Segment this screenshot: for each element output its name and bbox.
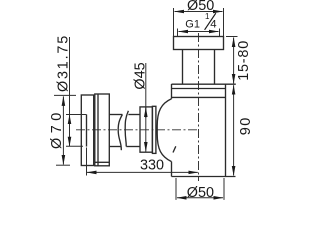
dimension Ø70: bottom extension line	[56, 164, 70, 166]
dimension 330: left extension line at wall plane	[86, 148, 88, 176]
pipe break squiggle right curve	[125, 111, 128, 147]
dimension G1 1/4: extension line left	[177, 29, 179, 37]
dimension Ø31.75: top extension line	[66, 114, 87, 116]
intersection curve at bottom of neck bell	[173, 146, 176, 152]
body neck bell curve (waist of bottle at inlet)	[157, 99, 171, 162]
dimension 15-80: top extension line at flange top	[226, 36, 238, 38]
svg-text:4: 4	[210, 18, 216, 30]
pipe break squiggle left curve	[118, 115, 122, 151]
washer between nut and body neck	[152, 106, 156, 153]
dimension 15-80: vertical dimension line with arrows	[233, 38, 235, 84]
compression nut at body inlet	[140, 107, 152, 152]
svg-text:G1: G1	[185, 18, 200, 30]
dimension Ø31.75: bottom extension line	[66, 145, 83, 147]
riser pipe wall right	[214, 50, 216, 85]
body top edge (extended right as shared extension line for 15-80 and 90 dims)	[172, 83, 236, 85]
svg-text:Ø70: Ø70	[49, 108, 65, 149]
wall flange plate (Ø70)	[81, 95, 93, 166]
dimension 90: vertical dimension line with arrows	[233, 85, 235, 175]
svg-text:15-80: 15-80	[236, 40, 252, 81]
dimension Ø31.75: dimension line from label	[69, 37, 71, 146]
vertical centerline of riser and body	[198, 33, 200, 181]
wall flange collar inner vertical edge	[97, 94, 99, 166]
svg-text:90: 90	[238, 116, 254, 135]
top flange (G1 1/4 nut)	[174, 37, 224, 50]
wall flange collar	[95, 94, 110, 166]
svg-text:Ø50: Ø50	[187, 0, 214, 14]
dimension Ø50 top: dimension line with arrows	[175, 11, 223, 13]
riser pipe wall left	[182, 50, 184, 85]
svg-text:Ø50: Ø50	[187, 185, 214, 200]
wall flange collar inner bottom edge	[95, 161, 110, 163]
dimension Ø45: top arrow	[145, 108, 147, 119]
body right wall	[225, 84, 227, 177]
dimension Ø70: dimension line with arrows	[62, 96, 64, 164]
body bottom edge (extended right as extension line for 90 dim)	[172, 176, 236, 178]
body top band line	[172, 88, 226, 90]
body interior seam line below top collar	[172, 96, 226, 98]
dimension G1 1/4: dimension line with arrows	[179, 31, 219, 33]
outlet pipe bottom edge right of break	[126, 146, 140, 148]
dimension Ø70: top extension line	[54, 94, 76, 96]
body left wall upper segment	[171, 84, 173, 99]
dimension Ø50 top: extension line left	[173, 8, 175, 36]
outlet pipe bottom edge left of break	[109, 146, 121, 148]
svg-text:Ø45: Ø45	[132, 62, 148, 89]
dimension G1 1/4: extension line right	[219, 29, 221, 37]
body left wall lower segment	[171, 162, 173, 177]
dimension Ø50 top: extension line right	[223, 8, 225, 36]
dimension Ø50 bottom: dimension line with arrows	[177, 197, 223, 199]
dimension Ø50 bottom: extension line left	[175, 178, 177, 200]
label G1 1/4	[185, 12, 216, 31]
dimension 330: dimension line with arrows	[87, 171, 198, 173]
outlet pipe top edge right of break	[128, 114, 140, 116]
dimension Ø31.75: top arrow	[69, 115, 71, 125]
outlet pipe top edge left of break	[109, 114, 122, 116]
svg-text:330: 330	[140, 158, 164, 174]
dimension Ø45: dimension line from label down through nut	[145, 63, 147, 152]
outlet pipe left end cap at wall plane	[86, 115, 88, 147]
svg-text:Ø31.75: Ø31.75	[56, 34, 72, 92]
horizontal centerline of outlet pipe	[76, 129, 199, 131]
dimension Ø50 bottom: extension line right	[223, 178, 225, 200]
